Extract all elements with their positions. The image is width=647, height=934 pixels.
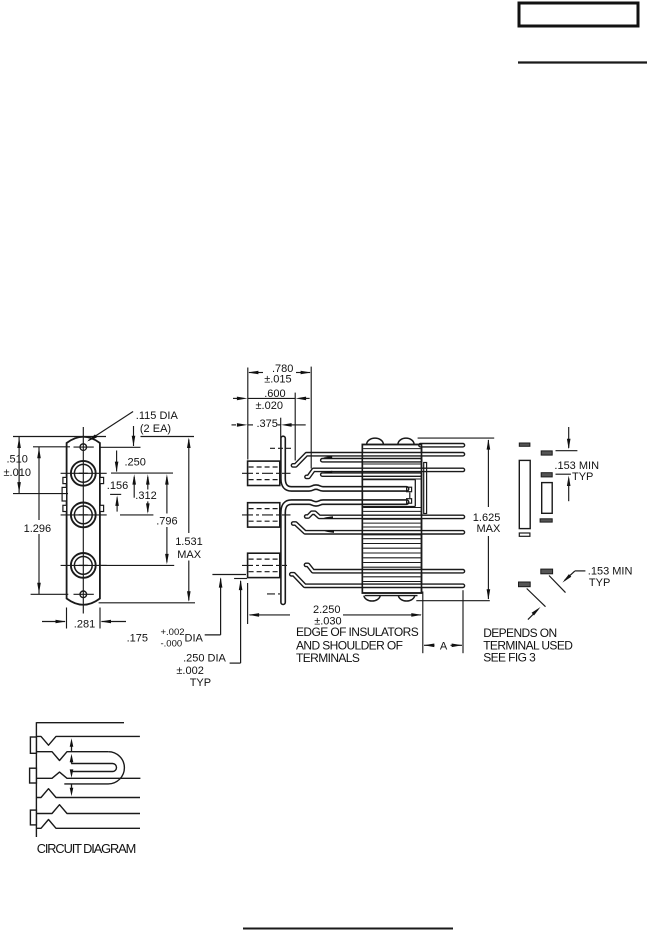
svg-text:.250 DIA: .250 DIA	[183, 653, 226, 665]
terminal cylinder 3 (side view)	[248, 553, 280, 577]
circuit hairpin loop	[71, 764, 116, 772]
dim 1.296	[38, 447, 40, 595]
dim .796	[166, 477, 168, 514]
polarity arrow 3	[71, 771, 73, 773]
dim A	[424, 644, 435, 646]
plate left small tab upper	[63, 477, 67, 483]
terminal strip row2 lug	[322, 472, 420, 477]
terminal axis line C1	[549, 576, 566, 593]
svg-text:1.531: 1.531	[175, 536, 203, 548]
circuit terminal box 1	[30, 737, 36, 753]
terminal strip row5 (bent lead)	[306, 565, 463, 571]
dim .153 MIN TYP (upper)	[568, 427, 570, 448]
cylinder 2 centerline	[242, 514, 291, 516]
coil bottom base line	[365, 595, 418, 597]
ref line .510 lower	[13, 493, 68, 495]
circuit wire row3 (winding lead)	[36, 772, 140, 778]
ext line .780 right ref	[310, 367, 312, 469]
svg-text:2.250: 2.250	[313, 604, 341, 616]
polarity arrow 2	[71, 761, 73, 764]
terminal strip row6 (bent lead)	[291, 574, 463, 586]
coil winding hatch lines	[363, 448, 421, 450]
coil top bump left	[367, 438, 384, 444]
ref line circle2 level (right)	[120, 514, 153, 516]
terminal circle 3 (front view)	[71, 553, 96, 578]
coil body (insulator/windings)	[362, 445, 421, 594]
svg-text:.312: .312	[135, 490, 156, 502]
ref line 1.625 bottom	[416, 600, 490, 602]
terminal strip row4b (bent lead)	[293, 524, 463, 533]
svg-text:1.296: 1.296	[24, 523, 52, 535]
svg-text:.510: .510	[7, 454, 28, 466]
coil bottom bump right	[398, 596, 414, 601]
coil top bump right	[398, 438, 414, 444]
mounting plate upper segment with lead channel upper strip	[283, 438, 406, 489]
dim .281	[66, 608, 68, 629]
ref line circle3 level (right)	[99, 564, 175, 566]
terminal end bar C2	[519, 582, 531, 587]
plate right small tab upper	[100, 477, 104, 483]
ext line insulator left face	[247, 368, 249, 460]
svg-text:TYP: TYP	[190, 677, 211, 689]
plate bottom dash-dot centerline	[267, 593, 283, 595]
top flange strip	[421, 443, 463, 448]
ext line .600 right ref	[294, 393, 296, 461]
channel end hook lower	[407, 499, 412, 504]
svg-text:.796: .796	[156, 516, 177, 528]
svg-text:DIA: DIA	[185, 633, 204, 645]
svg-text:±.002: ±.002	[176, 665, 203, 677]
terminal end bar B1	[541, 451, 552, 455]
terminal axis line C2	[527, 589, 546, 607]
svg-text:.250: .250	[125, 457, 146, 469]
dim .250	[116, 451, 118, 472]
terminal circle 1 (front view)	[71, 461, 96, 486]
svg-text:-.000: -.000	[161, 639, 183, 650]
coil body outline	[362, 445, 421, 594]
svg-text:.281: .281	[74, 619, 95, 631]
ref line plate bottom (right)	[99, 602, 195, 604]
dim 1.531 MAX	[188, 440, 190, 534]
cylinder 1 centerline	[242, 472, 291, 474]
ref line top of plate	[13, 436, 106, 438]
dim 1.625 MAX	[487, 440, 489, 507]
polarity arrow 1	[71, 745, 73, 751]
ext line 2.250 left	[247, 583, 249, 624]
terminal end bar A1	[519, 443, 530, 446]
terminal strip row2 (bent lead)	[307, 470, 463, 477]
header rule (top right)	[518, 61, 647, 63]
dim .375	[248, 424, 253, 426]
dim inner up arrow at circle1	[133, 477, 135, 498]
svg-text:TYP: TYP	[589, 577, 610, 589]
plate vertical centerline	[82, 427, 84, 614]
dim .312	[147, 477, 149, 490]
terminal cylinder 1 (side view)	[248, 461, 280, 485]
solder tab marker 2	[323, 471, 332, 474]
ext line .375 right ref	[280, 418, 282, 438]
circuit wire row1 (winding lead)	[36, 736, 139, 745]
terminal circle 2 (front view)	[71, 503, 96, 528]
svg-text:±.015: ±.015	[264, 374, 291, 386]
terminal strip row4 (bent lead)	[306, 513, 463, 517]
polarity arrow 4	[71, 784, 73, 789]
svg-text:1.625: 1.625	[473, 512, 501, 524]
svg-text:.156: .156	[107, 480, 128, 492]
solder tab marker 1	[323, 456, 332, 459]
svg-text:.175: .175	[127, 633, 148, 645]
terminal end bar B3	[540, 519, 552, 522]
ref line circle1 level (right)	[111, 472, 173, 474]
solder tab marker 4	[325, 530, 335, 533]
plate left large tab	[62, 487, 67, 501]
circuit bus and top wire	[35, 722, 37, 837]
terminal end bar B2	[541, 473, 552, 477]
cylinder 3 centerline	[242, 564, 287, 566]
svg-text:±.020: ±.020	[256, 400, 283, 412]
svg-text:A: A	[440, 640, 448, 652]
dim arrow (2 EA) down	[133, 426, 135, 446]
plate outline (front view)	[67, 437, 100, 605]
svg-text:TERMINALS: TERMINALS	[296, 651, 360, 665]
svg-text:.600: .600	[264, 388, 285, 400]
svg-text:.115 DIA: .115 DIA	[136, 410, 179, 422]
plate top dashed centerline	[270, 447, 293, 449]
terminal end bar C1	[541, 569, 553, 574]
dim .780 +/-.015	[249, 372, 263, 374]
dim .510 +/-.010	[18, 437, 20, 494]
footer rule (bottom center)	[243, 928, 453, 930]
ref line cyl3 bottom edge	[212, 574, 246, 576]
ext line 2.250 right / shoulder	[422, 592, 424, 654]
svg-text:CIRCUIT DIAGRAM: CIRCUIT DIAGRAM	[37, 841, 136, 856]
circuit terminal box 3	[30, 810, 36, 825]
terminal cylinder 2 (side view)	[248, 503, 280, 527]
bobbin right flange	[424, 463, 427, 514]
plate right small tab lower	[100, 505, 104, 511]
circuit outer return loop	[64, 752, 124, 784]
channel end hook upper	[407, 487, 412, 492]
ref line bottom hole level (left)	[31, 593, 69, 595]
circuit terminal box 2	[30, 768, 37, 783]
circuit wire row4 (winding lead)	[36, 789, 140, 798]
svg-text:+.002: +.002	[161, 627, 185, 638]
circuit wire row6 (winding lead)	[36, 820, 140, 829]
circuit wire row2 (winding lead)	[36, 752, 108, 761]
ref line cyl3 pin edge	[234, 578, 247, 580]
terminal strip row1 lug	[322, 458, 420, 463]
ref line 1.625 top	[418, 437, 495, 439]
svg-text:MAX: MAX	[477, 523, 502, 535]
svg-text:.375: .375	[257, 418, 278, 430]
mounting plate lower segment with lead channel lower strip	[283, 502, 406, 602]
svg-text:SEE FIG 3: SEE FIG 3	[483, 650, 536, 664]
leader .115 DIA	[89, 412, 134, 441]
ext line dim A right	[462, 590, 464, 653]
ref line top hole level (right)	[100, 446, 141, 448]
svg-text:.153 MIN: .153 MIN	[588, 565, 633, 577]
solder tab marker 3	[324, 516, 334, 519]
channel end bar	[409, 493, 411, 499]
svg-text:±.010: ±.010	[4, 467, 31, 479]
terminal end bar A2	[519, 533, 530, 536]
coil bottom bump left	[364, 596, 380, 601]
svg-text:MAX: MAX	[177, 549, 202, 561]
svg-text:(2 EA): (2 EA)	[140, 423, 171, 435]
terminal strip row1 (bent lead)	[293, 454, 463, 465]
dim 2.250 +/-.030	[250, 614, 291, 616]
terminal end body B	[542, 483, 553, 514]
terminal end body A	[519, 460, 530, 528]
winding window outline	[362, 479, 415, 481]
mounting hole bottom .115 DIA	[80, 591, 87, 598]
mounting hole top .115 DIA	[80, 444, 87, 451]
circuit wire row5 (winding lead)	[36, 805, 140, 814]
plate left small tab lower	[63, 505, 67, 511]
dim .600 +/-.020	[248, 397, 295, 399]
svg-text:TYP: TYP	[572, 471, 593, 483]
ref line top hole level (left)	[33, 446, 70, 448]
title block box (top right)	[519, 3, 638, 26]
svg-text:EDGE OF INSULATORS: EDGE OF INSULATORS	[296, 625, 419, 639]
